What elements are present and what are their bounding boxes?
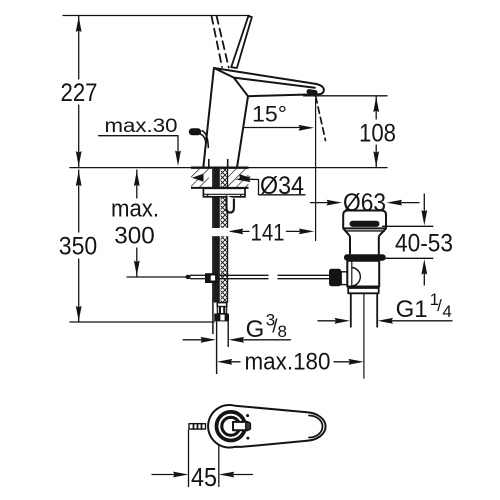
- drain neck taper: [343, 228, 386, 236]
- drain lower body: [347, 261, 379, 287]
- deck black wedge right: [240, 174, 249, 181]
- plug seal band: [350, 221, 380, 227]
- lever solid position: [231, 16, 252, 68]
- handle outer ring: [217, 412, 246, 441]
- drain collar nut: [348, 288, 379, 293]
- drain centerline: [363, 294, 365, 379]
- svg-text:max.30: max.30: [105, 116, 178, 137]
- dimension 350: [76, 170, 82, 322]
- drain plug cap: [343, 211, 386, 229]
- svg-text:108: 108: [359, 120, 396, 148]
- svg-text:max.180: max.180: [245, 349, 331, 376]
- G3/8 connector pipe: [216, 322, 218, 375]
- hose break for 141 dimension: [211, 228, 230, 236]
- pop-up vertical rod: [212, 169, 214, 334]
- svg-text:Ø63: Ø63: [343, 189, 386, 217]
- wire bottom hose reference line: [70, 321, 214, 323]
- deck bottom line: [191, 187, 249, 189]
- wire deck top extension line: [70, 167, 387, 169]
- rod knob at drain: [329, 269, 341, 286]
- svg-text:Ø34: Ø34: [260, 172, 304, 200]
- wire 15 degree dashed stream line: [316, 97, 326, 141]
- deck black wedge left: [192, 174, 204, 182]
- dimension diameter 63: [311, 200, 420, 206]
- wire spout outlet extension line: [315, 99, 317, 241]
- dimension 45: [152, 430, 253, 487]
- deck hatched right part: [228, 169, 249, 187]
- drain tailpipe: [350, 293, 352, 327]
- drain flange band: [344, 254, 386, 261]
- handle inner ring: [222, 417, 240, 435]
- drain upper body: [349, 236, 351, 254]
- svg-text:45: 45: [191, 464, 217, 492]
- threaded shank crosshatch: [221, 169, 228, 303]
- hose end sleeve: [217, 303, 226, 307]
- retaining hook: [227, 196, 234, 213]
- rod cross fitting: [205, 273, 218, 283]
- horizontal rod: [190, 274, 205, 276]
- svg-text:max.: max.: [111, 196, 159, 223]
- svg-text:300: 300: [114, 222, 155, 249]
- label diameter 34: [235, 176, 305, 195]
- pull-rod knob on body: [189, 128, 201, 135]
- shank hole edges above deck: [209, 159, 228, 168]
- svg-text:15°: 15°: [252, 102, 287, 127]
- rod left ball end: [185, 275, 190, 279]
- dimension 40-53: [382, 194, 432, 285]
- aerator outlet: [306, 89, 318, 95]
- handle outline: [208, 405, 326, 448]
- svg-text:350: 350: [59, 233, 98, 261]
- dimension max.180: [217, 359, 364, 365]
- dimension max.300 rod extension line: [127, 276, 190, 278]
- deck top line: [191, 166, 249, 168]
- handle inner end arc: [309, 416, 323, 438]
- dimension max.300: [134, 170, 140, 277]
- dimension 227: [76, 16, 82, 168]
- handle dots: [246, 414, 249, 417]
- svg-text:227: 227: [61, 79, 98, 107]
- svg-text:141: 141: [251, 220, 285, 247]
- faucet body outline: [203, 68, 324, 168]
- lever dashed alternate position: [212, 16, 223, 67]
- handle pin stub: [189, 424, 206, 429]
- hose nut: [214, 314, 229, 322]
- svg-text:40-53: 40-53: [395, 229, 453, 257]
- dimension 108: [304, 95, 388, 97]
- wire top reference line: [63, 15, 250, 17]
- deck hatched left part: [191, 169, 209, 187]
- mounting washer: [203, 188, 245, 197]
- dimension 141: [228, 229, 314, 235]
- handle lever bar: [233, 422, 248, 430]
- threaded shank dark core: [214, 169, 220, 303]
